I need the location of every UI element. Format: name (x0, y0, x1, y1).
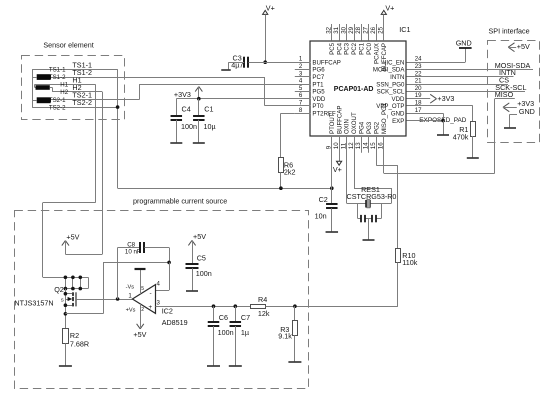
label IC1 (399, 25, 410, 34)
svg-text:PG3: PG3 (366, 121, 373, 134)
svg-text:IC2: IC2 (162, 307, 173, 316)
net label TS1-2 (72, 68, 92, 77)
net label SCK-SCL (495, 83, 526, 92)
svg-text:+5V: +5V (193, 232, 206, 241)
svg-text:TS2-2: TS2-2 (49, 104, 66, 111)
svg-text:PC5: PC5 (329, 42, 336, 54)
wire TS1 left pin (32, 77, 37, 79)
resistor R2 (63, 329, 69, 344)
wire sense top (103, 262, 169, 264)
svg-text:PG4: PG4 (359, 121, 366, 134)
wire rail loop (65, 277, 88, 288)
IC1 right pins 24-17 and EXP (373, 56, 422, 125)
label R6 (284, 160, 296, 176)
wire sensor left bus (32, 69, 34, 107)
node gate junction (116, 297, 120, 301)
svg-text:+Vs: +Vs (126, 308, 136, 314)
wire C5 bottom (192, 268, 194, 291)
svg-text:2k2: 2k2 (284, 167, 296, 176)
wire H1 left (43, 202, 96, 204)
node R6 junction (279, 186, 283, 190)
wire PT2REF to R6 (281, 113, 295, 158)
wire C8 right (145, 248, 170, 263)
svg-text:C2: C2 (319, 195, 328, 204)
svg-text:+5V: +5V (517, 42, 530, 51)
net label MOSI-SDA (495, 61, 531, 70)
wire TS1-2 to PT0 (265, 105, 311, 107)
svg-text:+5V: +5V (66, 232, 79, 241)
wire H pin H2 jog (50, 88, 53, 92)
svg-text:VDD: VDD (392, 96, 405, 103)
wire MISO_PG1 route (384, 136, 495, 174)
node C8/pin4 junction (167, 261, 171, 265)
op-amp pin numbers (128, 281, 160, 307)
thermistor TS2 (37, 97, 51, 103)
svg-text:PG6: PG6 (312, 67, 325, 74)
svg-text:IC1: IC1 (399, 25, 410, 34)
resonator RES1 crystal (347, 200, 392, 208)
svg-text:C5: C5 (197, 254, 206, 263)
svg-text:20: 20 (415, 85, 422, 92)
net label TS2-1 (72, 91, 92, 100)
svg-text:1: 1 (299, 56, 303, 63)
svg-text:+3V3: +3V3 (437, 94, 454, 103)
svg-text:V+: V+ (333, 165, 342, 174)
svg-text:C8: C8 (127, 241, 135, 248)
label C4 (181, 105, 197, 131)
svg-text:10 nF: 10 nF (125, 249, 141, 256)
wire TS2 left pin (32, 100, 37, 102)
wire V+ to C3 node (265, 14, 267, 62)
node EXP junction (441, 119, 445, 123)
svg-text:31: 31 (333, 26, 340, 33)
wire sense riser (103, 262, 105, 313)
svg-text:TS1-2: TS1-2 (49, 74, 66, 81)
svg-text:2: 2 (299, 63, 303, 70)
label: SPI interface (489, 27, 530, 36)
svg-text:AD8519: AD8519 (162, 318, 188, 327)
pin name TS1-1 (49, 67, 66, 74)
node C2 junction (330, 186, 334, 190)
frame: SPI interface box (488, 41, 540, 143)
capacitor C7 (230, 322, 242, 326)
label RES1 (361, 185, 380, 194)
op-amp IC2 (132, 285, 155, 314)
svg-text:MISO: MISO (495, 90, 514, 99)
ground C4 (170, 142, 182, 144)
label C7 (241, 313, 250, 337)
frame: programmable current source box (15, 211, 309, 389)
wire VPP_OTP to R1 (407, 106, 473, 122)
net label MISO (495, 90, 514, 99)
wire H2 down (102, 92, 104, 254)
ground RES1 (363, 239, 375, 241)
label: Sensor element (43, 40, 93, 49)
net label CS (499, 76, 509, 85)
svg-text:5: 5 (141, 286, 144, 292)
wire PG2 to R10 (376, 136, 398, 248)
wire C8 left (118, 247, 141, 249)
svg-text:EXP: EXP (392, 118, 404, 125)
wire Q2 drain rail (43, 277, 88, 279)
wire R10 bottom (397, 263, 399, 307)
svg-text:29: 29 (348, 26, 355, 33)
supply +5V (SPI) (508, 42, 530, 52)
wire C3 gnd stem (228, 62, 230, 69)
svg-text:+: + (148, 304, 152, 311)
wire op-amp output bus (156, 306, 251, 308)
wire C6 bottom (213, 326, 215, 366)
svg-text:7: 7 (299, 99, 303, 106)
thermistor TS1 (37, 74, 51, 80)
svg-text:100n: 100n (181, 122, 197, 131)
resistor R10 (396, 249, 401, 263)
node TS common junction (116, 105, 120, 109)
wire H pin H1 riser (35, 84, 36, 87)
svg-text:C4: C4 (182, 105, 191, 114)
capacitor C1 (193, 116, 205, 120)
svg-text:PC4: PC4 (336, 42, 343, 54)
supply +3V3 arrow (174, 87, 203, 99)
label C3 (231, 53, 243, 69)
label IC2 (162, 307, 188, 327)
wire rail link a (64, 276, 68, 291)
wire C3 right (249, 62, 266, 64)
svg-text:GND: GND (456, 39, 472, 48)
ground C3 (221, 69, 231, 71)
wire SCK-SCL (407, 91, 526, 93)
resistor R3 (293, 321, 298, 336)
svg-text:+3V3: +3V3 (174, 90, 191, 99)
wire MOSI-SDA (407, 69, 534, 71)
wire C7 top (235, 306, 237, 322)
wire MISO (495, 98, 515, 100)
supply +3V3 (SPI) (503, 99, 534, 112)
svg-text:OXOUT: OXOUT (351, 112, 358, 134)
wire C8 left riser (117, 248, 119, 300)
supply V+ (right) (381, 3, 394, 14)
svg-text:27: 27 (363, 26, 370, 33)
svg-text:30: 30 (340, 26, 347, 33)
wire R4 to R10 (266, 306, 398, 308)
ground C2 (326, 231, 339, 233)
svg-text:C6: C6 (219, 313, 228, 322)
svg-text:H2: H2 (60, 89, 68, 96)
ground C7 (229, 365, 242, 367)
wire R3 top (294, 306, 296, 321)
ground GND (top right) (456, 39, 472, 48)
svg-text:8: 8 (299, 107, 303, 114)
ground C1 (193, 142, 205, 144)
wire H1 to Q2 rail (42, 203, 44, 278)
svg-text:26: 26 (370, 26, 377, 33)
svg-text:V+: V+ (266, 3, 275, 12)
label PCAP01-AD (334, 86, 374, 93)
heater H (36, 85, 50, 90)
wire R3 bottom (294, 335, 296, 362)
svg-text:SCK_SCL: SCK_SCL (377, 89, 405, 96)
svg-text:10n: 10n (315, 212, 327, 221)
svg-text:1µ: 1µ (241, 328, 249, 337)
wire C1 bottom (198, 120, 200, 143)
ground C5 (186, 290, 198, 292)
wire Q2 source rail (65, 313, 103, 315)
svg-text:SPI interface: SPI interface (489, 27, 530, 36)
capacitor C4 (171, 116, 183, 120)
svg-text:BUFFCAP: BUFFCAP (312, 59, 340, 66)
svg-text:PG2: PG2 (374, 121, 381, 134)
svg-text:14: 14 (363, 142, 370, 149)
ground C6 (207, 365, 220, 367)
svg-text:2: 2 (141, 307, 144, 313)
wire PTOUT down (331, 136, 333, 188)
svg-text:100n: 100n (218, 328, 234, 337)
wire MISO riser (494, 99, 496, 174)
pin name TS1-2 (49, 74, 66, 81)
svg-text:INTN: INTN (390, 74, 404, 81)
svg-text:21: 21 (415, 78, 422, 85)
svg-text:PCAUX: PCAUX (374, 43, 381, 64)
pin name TS2-1 (49, 97, 66, 104)
svg-text:PC2: PC2 (351, 42, 358, 54)
svg-text:TS2-2: TS2-2 (72, 98, 92, 107)
svg-text:TS2-1: TS2-1 (49, 97, 66, 104)
wire pin17 gnd link (407, 113, 444, 120)
wire C2 top (331, 188, 333, 204)
net label H1 (72, 76, 81, 85)
wire H2/+5V riser joint (102, 254, 104, 256)
svg-text:4µ7: 4µ7 (231, 61, 243, 70)
svg-text:programmable current source: programmable current source (133, 197, 227, 206)
pin name EXPOSED_PAD (419, 117, 467, 124)
IC1 top pins 32-25 (325, 24, 388, 71)
wire TS2-1 jog (139, 84, 141, 100)
wire BUFFCAP pin1 (265, 62, 310, 64)
pin name H2 (60, 89, 68, 96)
svg-text:MOSI_SDA: MOSI_SDA (373, 67, 405, 74)
wire R6 bottom (280, 172, 282, 188)
capacitor C8 (140, 242, 144, 253)
svg-text:PCAP01-AD: PCAP01-AD (334, 86, 374, 93)
svg-text:110k: 110k (402, 258, 417, 267)
wire H1 row (35, 84, 96, 86)
svg-text:7.68R: 7.68R (70, 340, 89, 349)
node C6 junction (212, 304, 216, 308)
resistor R6 (279, 158, 284, 173)
label R1 (453, 125, 469, 142)
label C2 (315, 195, 328, 221)
ground R2 (59, 365, 72, 367)
wire C3 left (229, 62, 245, 64)
node R3 junction (293, 304, 297, 308)
wire H1 down (95, 84, 97, 202)
svg-text:24: 24 (415, 56, 422, 63)
svg-text:12k: 12k (258, 309, 270, 318)
svg-text:GND: GND (391, 111, 405, 118)
svg-text:V+: V+ (385, 3, 394, 12)
label C6 (218, 313, 234, 337)
IC1 left pins 1-8 (295, 56, 341, 118)
svg-text:PT1: PT1 (312, 81, 324, 88)
wire C4 bottom (176, 120, 178, 143)
svg-text:BUFFCAP: BUFFCAP (336, 106, 343, 134)
wire TS1-2 vertical jog (264, 77, 266, 106)
supply V+ (left) (263, 3, 275, 14)
resonator internal capacitors (358, 203, 382, 222)
svg-text:PG5: PG5 (312, 89, 325, 96)
wire C6 top (213, 306, 215, 322)
svg-text:S: S (61, 298, 64, 303)
wire Q2 gate to op-amp (76, 299, 132, 301)
svg-text:C7: C7 (241, 313, 250, 322)
svg-text:PC0: PC0 (366, 42, 373, 54)
svg-text:-Vs: -Vs (126, 285, 135, 291)
svg-text:C1: C1 (204, 105, 213, 114)
svg-text:Q2: Q2 (54, 285, 64, 294)
ground SPI (504, 127, 516, 129)
label: programmable current source (133, 197, 227, 206)
svg-text:PT0: PT0 (312, 103, 324, 110)
label R4 (258, 295, 270, 318)
wire EXP to gnd (443, 121, 445, 135)
svg-text:470k: 470k (453, 133, 469, 142)
svg-text:SSN_PG0: SSN_PG0 (376, 81, 405, 88)
svg-text:VDD: VDD (312, 96, 325, 103)
op-amp +Vs pin (126, 304, 147, 339)
wire TS2-1 row (51, 99, 140, 101)
IC IC1 body (310, 41, 406, 136)
svg-text:17: 17 (415, 107, 422, 114)
wire +3V3 to VDD pin6 (176, 98, 310, 100)
svg-text:28: 28 (355, 26, 362, 33)
supply +5V (C5) (188, 232, 206, 264)
wire R2 bottom (65, 343, 67, 366)
svg-text:23: 23 (415, 63, 422, 70)
svg-text:+5V: +5V (133, 330, 146, 339)
net label TS2-2 (72, 98, 92, 107)
capacitor C6 (208, 322, 220, 326)
wire OXOUT jog (354, 136, 392, 203)
svg-text:PC7: PC7 (312, 74, 324, 81)
svg-text:32: 32 (325, 26, 332, 33)
svg-text:CSTCRG53-R0: CSTCRG53-R0 (347, 192, 397, 201)
svg-text:1: 1 (128, 292, 132, 299)
wire V+ to pin25 (383, 14, 385, 40)
wire R1 to gnd (472, 136, 474, 159)
node C3/V+/pin1 (263, 60, 267, 64)
wire pin4 riser (156, 262, 170, 290)
ground R3 (288, 361, 301, 363)
label C1 (204, 105, 216, 131)
label CSTCRG53-R0 (347, 192, 397, 201)
capacitor C2 (326, 204, 338, 208)
svg-text:PTOUT: PTOUT (329, 113, 336, 134)
wire +5V rail (65, 254, 102, 256)
svg-text:-: - (150, 290, 152, 297)
wire rail link b (71, 276, 75, 291)
wire TS2-2 row (32, 107, 118, 109)
IC1 bottom pins 9-16 (325, 102, 388, 152)
svg-text:9.1k: 9.1k (278, 332, 292, 341)
wire Q2 left vertical (64, 289, 68, 329)
node C7 junction (234, 304, 238, 308)
net label H2 (72, 83, 81, 92)
wire CS (407, 84, 509, 86)
svg-text:4: 4 (299, 78, 303, 85)
label GND (SPI) (519, 107, 535, 116)
capacitor C3 (244, 57, 248, 68)
label NTJS3157N (14, 299, 53, 308)
svg-text:NTJS3157N: NTJS3157N (14, 299, 53, 308)
svg-text:PC1: PC1 (359, 42, 366, 54)
svg-text:MISO_PG1: MISO_PG1 (381, 102, 388, 134)
ground EXPOSED_PAD (437, 134, 449, 136)
wire INTN (407, 76, 514, 78)
wire C1 top (198, 99, 200, 116)
ground R1 (467, 157, 479, 159)
wire C2 bottom (331, 208, 333, 232)
svg-text:BUFFCAP: BUFFCAP (381, 43, 388, 71)
frame: Sensor element box (22, 56, 125, 120)
svg-text:3: 3 (299, 70, 303, 77)
svg-text:Sensor element: Sensor element (43, 40, 93, 49)
svg-text:100n: 100n (196, 269, 212, 278)
node +3V3 junction (197, 97, 201, 101)
label C5 (196, 254, 212, 278)
resistor R4 (251, 305, 266, 309)
net label TS1-1 (72, 60, 92, 69)
wire common node bus (118, 188, 332, 190)
wire TS1-2 row (51, 77, 265, 79)
svg-text:GND: GND (519, 107, 535, 116)
svg-text:R4: R4 (258, 295, 267, 304)
svg-text:13: 13 (355, 142, 362, 149)
label R3 (278, 325, 292, 341)
svg-text:OXIN: OXIN (344, 119, 351, 134)
op-amp -Vs pin (126, 269, 146, 294)
supply +3V3 at pin19 (407, 94, 455, 103)
svg-text:5: 5 (299, 85, 303, 92)
supply V+ down at pin10 (333, 136, 342, 174)
label Q2 (54, 285, 64, 294)
label R2 (70, 331, 89, 349)
capacitor C5 (186, 264, 199, 268)
svg-text:H1: H1 (60, 82, 68, 89)
svg-text:12: 12 (348, 142, 355, 149)
resistor R1 (471, 122, 476, 137)
wire pin24 to GND (407, 48, 466, 63)
label R10 (402, 251, 417, 267)
pin name TS2-2 (49, 104, 66, 111)
transistor Q2 (61, 292, 76, 306)
wire C4 top (176, 99, 178, 116)
wire TS2-1 to PT1 (139, 84, 310, 86)
wire C7 bottom (235, 326, 237, 366)
net label INTN (499, 68, 516, 77)
supply +5V (Q2) (62, 232, 80, 254)
label C8 (125, 241, 141, 255)
wire TS1-1 row (32, 69, 118, 71)
wire rail link c (79, 276, 83, 291)
wire TS common down (117, 69, 119, 188)
wire EXP (407, 120, 444, 122)
svg-text:PC3: PC3 (344, 42, 351, 54)
wire OXIN down (346, 136, 348, 203)
wire resonator gnd (368, 219, 370, 240)
wire SPI gnd stem (510, 114, 518, 128)
wire H2 row (52, 91, 102, 93)
svg-text:10µ: 10µ (204, 122, 216, 131)
